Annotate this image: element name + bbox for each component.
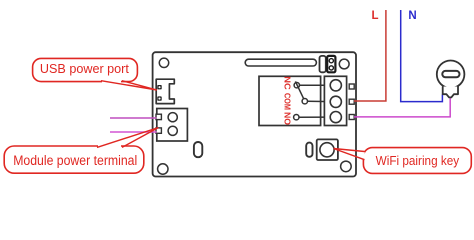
wire NO contact to terminal	[299, 116, 331, 118]
wire neutral N blue	[401, 10, 443, 102]
output screw NC	[330, 80, 341, 91]
callout WiFi pairing key	[334, 148, 472, 174]
module power terminal block	[156, 109, 187, 142]
output pin square COM	[349, 99, 354, 104]
callout Module tail lines	[97, 128, 158, 148]
callout USB tail lines	[101, 81, 157, 90]
svg-text:NC: NC	[282, 76, 292, 90]
mounting hole top-left	[159, 58, 168, 67]
board PCB outline	[153, 52, 356, 176]
svg-text:USB power port: USB power port	[40, 61, 129, 76]
lamp filament slot	[442, 71, 459, 77]
USB pin 2	[157, 96, 161, 100]
svg-text:N: N	[408, 10, 416, 22]
capacitor near button	[306, 143, 312, 157]
wire NC contact to terminal	[300, 84, 332, 86]
lamp bulb	[437, 61, 465, 98]
mounting hole bottom-right	[341, 161, 352, 172]
mounting hole bottom-left	[158, 164, 168, 174]
callout USB power port	[33, 58, 157, 90]
relay contact NO	[294, 115, 299, 120]
wire lamp return magenta	[354, 98, 450, 117]
callout Module power terminal	[4, 128, 158, 174]
mounting hole top-right	[339, 59, 349, 69]
svg-text:WiFi pairing key: WiFi pairing key	[376, 153, 460, 168]
relay switch arm	[295, 81, 303, 98]
callout Module tail border gap	[98, 145, 121, 148]
callout WiFi tail lines	[334, 149, 365, 160]
relay K1 body	[259, 76, 321, 125]
antenna slot	[245, 59, 316, 66]
output pin square NC	[349, 84, 354, 89]
output screw NO	[330, 112, 341, 123]
terminal screw 2	[168, 126, 177, 135]
terminal pin square 2	[156, 128, 161, 133]
capacitor top	[320, 56, 326, 72]
output terminal block	[324, 76, 354, 125]
svg-text:NO: NO	[282, 112, 292, 126]
wire module power magenta 2	[110, 131, 157, 133]
capacitor bottom-left	[194, 142, 202, 157]
wire live L red	[354, 10, 386, 101]
svg-text:Module power terminal: Module power terminal	[13, 153, 137, 168]
svg-text:COM: COM	[282, 93, 292, 110]
WiFi pairing button	[317, 139, 338, 160]
wire COM contact to terminal	[308, 100, 332, 102]
callout USB tail border gap	[102, 80, 121, 83]
lamp base	[443, 87, 458, 98]
output pin square NO	[349, 115, 354, 120]
relay contact COM	[302, 99, 307, 104]
wire module power violet 1	[110, 117, 157, 119]
terminal screw 1	[168, 113, 177, 122]
USB pin 1	[157, 85, 161, 89]
pin header	[327, 56, 335, 72]
svg-text:L: L	[371, 10, 378, 22]
USB power port connector	[156, 79, 174, 103]
terminal pin square 1	[156, 114, 161, 119]
relay contact NC	[294, 83, 299, 88]
callout WiFi tail border gap	[362, 152, 365, 160]
output screw COM	[330, 96, 341, 107]
